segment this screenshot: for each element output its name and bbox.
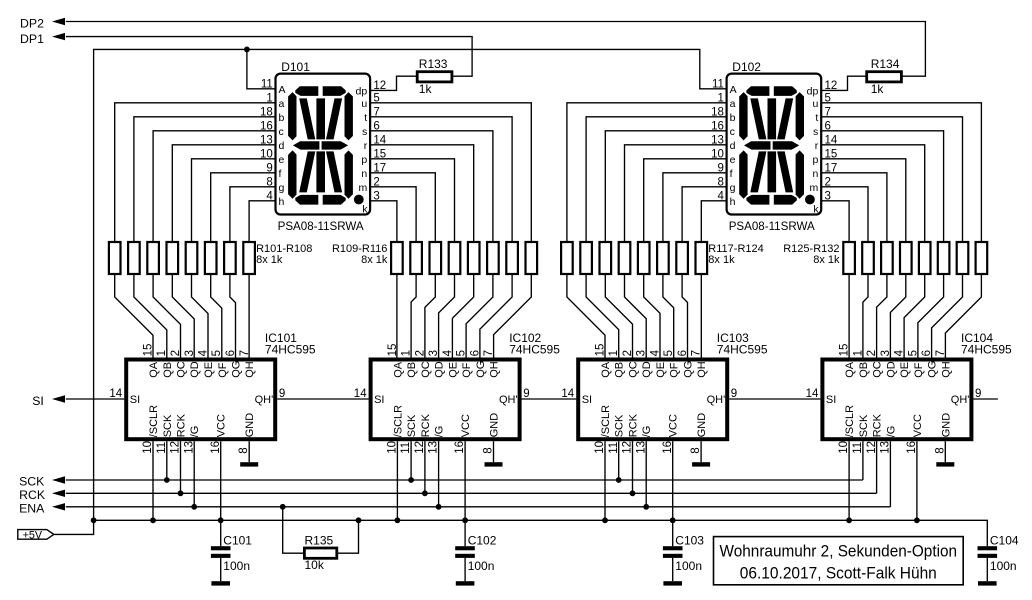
wire IC104 RCK pin (876, 441, 878, 493)
svg-text:5: 5 (456, 350, 468, 356)
wire C102 to ground (464, 558, 466, 581)
svg-text:QG: QG (231, 361, 243, 378)
svg-text:c: c (730, 126, 735, 138)
svg-text:QC: QC (420, 361, 432, 378)
svg-text:2: 2 (866, 350, 878, 356)
svg-text:74HC595: 74HC595 (717, 342, 768, 356)
wire D102 segment r to R129 (821, 145, 925, 242)
svg-text:QE: QE (899, 362, 911, 378)
svg-text:QG: QG (683, 361, 695, 378)
resistor R120 (619, 242, 631, 274)
wire IC104 VCC to +5V rail (916, 441, 918, 520)
node R135 +5V junction (356, 517, 362, 523)
svg-text:10k: 10k (305, 558, 325, 572)
svg-text:QA: QA (844, 361, 856, 378)
svg-text:s: s (362, 126, 367, 138)
capacitor C101 (211, 546, 231, 558)
svg-text:ENA: ENA (19, 502, 45, 516)
wire DP1 to R133 (66, 37, 472, 77)
wire D102 segment b to R118 (586, 117, 727, 242)
svg-text:t: t (815, 112, 818, 124)
svg-text:RCK: RCK (19, 488, 46, 502)
wire R127 to IC104 QC (877, 274, 887, 358)
svg-text:13: 13 (635, 441, 647, 454)
resistor R126 (862, 242, 874, 274)
svg-text:QH': QH' (707, 394, 726, 406)
wire IC104 SCK pin (862, 441, 864, 480)
svg-text:14: 14 (354, 388, 367, 400)
svg-text:8x 1k: 8x 1k (256, 254, 283, 266)
svg-text:n: n (361, 168, 367, 180)
wire D101 segment f to R106 (211, 173, 276, 242)
resistor R103 (147, 242, 159, 274)
svg-text:Wohnraumuhr 2, Sekunden-Option: Wohnraumuhr 2, Sekunden-Option (720, 542, 958, 561)
node IC102 SCK junction (408, 477, 414, 483)
node IC102 /SCLR junction (395, 517, 401, 523)
wire D101 segment a to R101 (115, 103, 276, 242)
svg-text:QC: QC (176, 361, 188, 378)
svg-text:10: 10 (838, 441, 850, 454)
wire D101 segment m to R110 (370, 187, 416, 242)
wire D101 segment u to R116 (370, 103, 531, 242)
svg-text:DP1: DP1 (20, 32, 44, 46)
svg-text:15: 15 (595, 344, 607, 357)
svg-text:t: t (364, 112, 367, 124)
node R135 ENA junction (280, 504, 286, 510)
wire R130 to IC104 QF (918, 274, 944, 358)
net ENA arrow (52, 503, 65, 510)
wire R106 to IC101 QF (211, 274, 222, 358)
resistor R107 (224, 242, 236, 274)
wire D101 segment t to R115 (370, 117, 512, 242)
wire R116 to IC102 QH (494, 274, 532, 358)
wire D101 pin12 to R133 (370, 76, 417, 90)
svg-text:f: f (279, 168, 282, 180)
svg-text:16: 16 (454, 441, 466, 454)
node IC102 VCC junction (462, 517, 468, 523)
IC103 GND stub wire (700, 441, 702, 462)
svg-text:QD: QD (189, 361, 201, 378)
svg-text:7: 7 (239, 350, 251, 356)
net SCK arrow (52, 476, 65, 483)
svg-text:RCK: RCK (872, 413, 884, 437)
svg-text:PSA08-11SRWA: PSA08-11SRWA (278, 219, 364, 233)
wire D101 segment n to R111 (370, 173, 435, 242)
node IC101 /G junction (191, 504, 197, 510)
svg-text:QG: QG (475, 361, 487, 378)
svg-text:1: 1 (852, 350, 864, 356)
resistor R105 (186, 242, 198, 274)
wire R110 to IC102 QB (411, 274, 416, 358)
svg-text:11: 11 (156, 442, 168, 454)
74HC595 IC102 (371, 360, 520, 440)
wire D101 segment g to R107 (230, 187, 276, 242)
svg-text:u: u (812, 98, 818, 110)
wire SCK rail (66, 479, 863, 481)
node IC102 /G junction (436, 504, 442, 510)
svg-text:2: 2 (414, 350, 426, 356)
svg-text:VCC: VCC (912, 414, 924, 437)
wire R105 to IC101 QE (192, 274, 209, 358)
svg-text:QD: QD (885, 361, 897, 378)
resistor R117 (561, 242, 573, 274)
svg-text:u: u (361, 98, 367, 110)
svg-text:100n: 100n (468, 559, 495, 573)
svg-text:b: b (730, 112, 736, 124)
wire R111 to IC102 QC (425, 274, 435, 358)
resistor R127 (881, 242, 893, 274)
svg-text:13: 13 (428, 441, 440, 454)
svg-text:R134: R134 (871, 57, 900, 71)
node IC101 /SCLR junction (150, 517, 156, 523)
svg-text:QD: QD (434, 361, 446, 378)
wire IC101 SCK pin (166, 441, 168, 480)
wire R108 to IC101 QH (248, 274, 250, 358)
svg-text:10: 10 (387, 441, 399, 454)
svg-text:k: k (362, 204, 368, 216)
IC101 GND stub wire (248, 441, 250, 462)
svg-text:m: m (810, 182, 819, 194)
ground symbol IC102 (485, 462, 503, 466)
resistor R121 (638, 242, 650, 274)
svg-text:8x 1k: 8x 1k (708, 254, 735, 266)
ground symbol C103 (663, 581, 682, 585)
capacitor C103 (663, 546, 683, 558)
wire R115 to IC102 QG (480, 274, 512, 358)
resistor R129 (919, 242, 931, 274)
svg-text:16: 16 (906, 441, 918, 454)
svg-text:R135: R135 (305, 534, 334, 548)
74HC595 IC101 (126, 360, 275, 440)
wire IC103 /G pin (645, 441, 647, 507)
svg-text:QF: QF (461, 362, 473, 378)
svg-text:11: 11 (852, 442, 864, 454)
display D101 lit segments (288, 86, 364, 204)
svg-text:8: 8 (483, 447, 495, 453)
node IC103 VCC junction (670, 517, 676, 523)
svg-text:4: 4 (442, 349, 454, 356)
resistor R109 (391, 242, 403, 274)
wire D102 segment n to R127 (821, 173, 887, 242)
svg-text:QE: QE (203, 362, 215, 378)
svg-text:RCK: RCK (176, 413, 188, 437)
svg-text:D102: D102 (732, 60, 761, 74)
resistor R132 (976, 242, 988, 274)
svg-text:h: h (279, 196, 285, 208)
svg-text:11: 11 (608, 442, 620, 454)
ground symbol C102 (456, 581, 475, 585)
ground symbol C104 (978, 581, 997, 585)
resistor R111 (430, 242, 442, 274)
wire IC103 RCK pin (632, 441, 634, 493)
wire R131 to IC104 QG (932, 274, 963, 358)
svg-text:d: d (279, 140, 285, 152)
capacitor C104 (978, 546, 998, 558)
wire C101 to ground (220, 558, 222, 581)
wire branch to D101 pin 11 (247, 49, 276, 88)
wire D102 segment k to R125 (821, 201, 849, 242)
supply +5V flag (18, 530, 54, 540)
resistor R125 (843, 242, 855, 274)
svg-text:PSA08-11SRWA: PSA08-11SRWA (729, 219, 815, 233)
resistor R104 (167, 242, 179, 274)
wire D102 segment t to R131 (821, 117, 962, 242)
wire R102 to IC101 QB (134, 274, 167, 358)
wire R124 to IC103 QH (700, 274, 702, 358)
svg-text:b: b (279, 112, 285, 124)
title box (714, 537, 964, 585)
svg-text:8: 8 (238, 447, 250, 453)
wire R103 to IC101 QC (153, 274, 180, 358)
svg-text:3: 3 (428, 350, 440, 356)
svg-text:SCK: SCK (406, 414, 418, 437)
wire IC102 /SCLR to +5V rail (396, 441, 398, 520)
wire SI to IC101 (66, 398, 124, 400)
wire D101 segment h to R108 (249, 201, 275, 242)
svg-text:QB: QB (858, 362, 870, 378)
wire IC102 QH' to IC103 SI (522, 398, 577, 400)
svg-text:8: 8 (690, 447, 702, 453)
node IC104 VCC junction (914, 517, 920, 523)
svg-text:1: 1 (608, 350, 620, 356)
svg-text:A: A (279, 84, 286, 96)
svg-text:13: 13 (183, 441, 195, 454)
wire RCK rail (66, 492, 877, 494)
wire R122 to IC103 QF (663, 274, 674, 358)
wire D101 segment d to R104 (172, 145, 275, 242)
svg-text:7: 7 (935, 350, 947, 356)
wire D102 segment p to R128 (821, 159, 906, 242)
wire ENA to R135 (283, 507, 305, 553)
svg-text:p: p (812, 154, 818, 166)
wire R132 to IC104 QH (945, 274, 981, 358)
svg-text:/SCLR: /SCLR (148, 405, 160, 437)
svg-text:12: 12 (825, 80, 838, 92)
svg-text:12: 12 (622, 441, 634, 454)
wire IC102 VCC to capacitor (464, 441, 466, 546)
node junction anode branch (244, 47, 250, 53)
svg-text:10: 10 (142, 441, 154, 454)
wire R128 to IC104 QD (890, 274, 905, 358)
svg-text:QD: QD (641, 361, 653, 378)
node +5V rail start (91, 517, 97, 523)
svg-text:QC: QC (872, 361, 884, 378)
svg-text:SCK: SCK (162, 414, 174, 437)
ground symbol IC104 (936, 462, 954, 466)
resistor R133 (417, 72, 452, 82)
node IC103 /SCLR junction (602, 517, 608, 523)
svg-text:4: 4 (894, 349, 906, 356)
svg-text:QH: QH (696, 361, 708, 378)
wire D102 pin12 to R134 (821, 76, 867, 90)
svg-text:a: a (730, 98, 736, 110)
node IC101 VCC junction (218, 517, 224, 523)
svg-text:SI: SI (374, 394, 384, 406)
svg-text:/G: /G (641, 426, 653, 438)
wire D102 segment g to R123 (682, 187, 727, 242)
wire R112 to IC102 QD (439, 274, 455, 358)
wire D101 segment p to R112 (370, 159, 454, 242)
svg-text:2: 2 (170, 350, 182, 356)
node IC103 SCK junction (616, 477, 622, 483)
net SI arrow (52, 395, 65, 402)
node IC101 SCK junction (164, 477, 170, 483)
svg-text:12: 12 (414, 441, 426, 454)
wire IC101 /G pin (193, 441, 195, 507)
svg-text:8x 1k: 8x 1k (813, 254, 840, 266)
svg-text:SI: SI (826, 394, 836, 406)
wire D101 segment s to R114 (370, 131, 493, 242)
resistor R115 (506, 242, 518, 274)
svg-text:14: 14 (109, 388, 122, 400)
resistor R102 (128, 242, 140, 274)
svg-text:c: c (279, 126, 284, 138)
svg-text:1k: 1k (419, 82, 433, 96)
svg-text:100n: 100n (675, 559, 702, 573)
wire +5V anode line to display pins 11 (94, 49, 727, 520)
svg-text:15: 15 (387, 344, 399, 357)
svg-text:VCC: VCC (668, 414, 680, 437)
svg-text:9: 9 (279, 388, 285, 400)
resistor R101 (109, 242, 121, 274)
svg-text:QH': QH' (499, 394, 518, 406)
wire R104 to IC101 QD (172, 274, 194, 358)
resistor R106 (205, 242, 217, 274)
svg-text:/G: /G (434, 426, 446, 438)
wire D102 segment d to R120 (625, 145, 727, 242)
resistor R123 (676, 242, 688, 274)
wire IC103 SCK pin (618, 441, 620, 480)
wire IC101 VCC to capacitor (220, 441, 222, 546)
svg-text:QE: QE (447, 362, 459, 378)
svg-text:QF: QF (217, 362, 229, 378)
wire D102 segment h to R124 (701, 201, 726, 242)
svg-text:6: 6 (225, 350, 237, 356)
svg-text:14: 14 (561, 388, 574, 400)
svg-text:16: 16 (210, 441, 222, 454)
svg-text:C104: C104 (990, 534, 1019, 548)
svg-text:10: 10 (594, 441, 606, 454)
wire D101 segment e to R105 (192, 159, 276, 242)
svg-text:RCK: RCK (628, 413, 640, 437)
wire R113 to IC102 QE (452, 274, 473, 358)
resistor R112 (449, 242, 461, 274)
svg-text:06.10.2017, Scott-Falk Hühn: 06.10.2017, Scott-Falk Hühn (740, 563, 937, 582)
svg-text:GND: GND (489, 413, 501, 438)
svg-text:SI: SI (32, 394, 44, 408)
svg-text:R133: R133 (419, 57, 448, 71)
resistor R134 (867, 72, 902, 82)
wire R129 to IC104 QE (904, 274, 925, 358)
wire IC102 RCK pin (424, 441, 426, 493)
wire R123 to IC103 QG (682, 274, 687, 358)
svg-text:1k: 1k (871, 82, 885, 96)
svg-text:5: 5 (907, 350, 919, 356)
svg-text:100n: 100n (990, 559, 1017, 573)
wire +5V flag to rail (54, 520, 94, 534)
ground symbol IC103 (692, 462, 710, 466)
svg-text:RCK: RCK (420, 413, 432, 437)
svg-text:8: 8 (934, 447, 946, 453)
resistor R130 (938, 242, 950, 274)
svg-text:D101: D101 (281, 60, 310, 74)
svg-text:/G: /G (885, 426, 897, 438)
wire R125 to IC104 QA (848, 274, 850, 358)
svg-text:7: 7 (483, 350, 495, 356)
svg-text:a: a (279, 98, 285, 110)
svg-text:1: 1 (401, 350, 413, 356)
svg-text:14: 14 (806, 388, 819, 400)
svg-text:SI: SI (582, 394, 592, 406)
wire R121 to IC103 QE (644, 274, 660, 358)
svg-text:QE: QE (655, 362, 667, 378)
svg-text:/G: /G (189, 426, 201, 438)
wire R135 to +5V rail (337, 520, 359, 553)
wire IC103 VCC to capacitor (672, 441, 674, 546)
svg-text:8x 1k: 8x 1k (361, 254, 388, 266)
resistor R116 (526, 242, 538, 274)
wire R118 to IC103 QB (586, 274, 619, 358)
wire D102 segment e to R121 (644, 159, 727, 242)
svg-text:QA: QA (148, 361, 160, 378)
svg-text:f: f (730, 168, 733, 180)
svg-text:/SCLR: /SCLR (392, 405, 404, 437)
svg-text:2: 2 (622, 350, 634, 356)
node IC101 RCK junction (178, 490, 184, 496)
svg-text:SCK: SCK (614, 414, 626, 437)
svg-text:GND: GND (696, 413, 708, 438)
display D102 lit segments (739, 86, 815, 204)
svg-text:15: 15 (143, 344, 155, 357)
svg-text:QH: QH (244, 361, 256, 378)
svg-text:3: 3 (636, 350, 648, 356)
svg-text:d: d (730, 140, 736, 152)
node IC102 RCK junction (422, 490, 428, 496)
svg-text:g: g (730, 182, 736, 194)
svg-text:3: 3 (880, 350, 892, 356)
svg-text:3: 3 (184, 350, 196, 356)
node IC104 /SCLR junction (846, 517, 852, 523)
svg-text:GND: GND (244, 413, 256, 438)
svg-text:/SCLR: /SCLR (600, 405, 612, 437)
svg-text:e: e (730, 154, 736, 166)
svg-text:6: 6 (921, 350, 933, 356)
wire +5V rail to C104 (94, 520, 988, 546)
svg-text:QB: QB (162, 362, 174, 378)
svg-text:VCC: VCC (460, 414, 472, 437)
resistor R124 (696, 242, 708, 274)
svg-text:QH': QH' (255, 394, 274, 406)
wire R117 to IC103 QA (567, 274, 605, 358)
resistor R108 (243, 242, 255, 274)
wire DP2 to R134 (66, 22, 926, 77)
IC104 GND stub wire (944, 441, 946, 462)
svg-text:dp: dp (807, 85, 819, 97)
ground symbol C101 (211, 581, 230, 585)
wire IC101 QH' to IC102 SI (277, 398, 368, 400)
svg-text:QF: QF (669, 362, 681, 378)
IC102 GND stub wire (493, 441, 495, 462)
wire R107 to IC101 QG (230, 274, 236, 358)
svg-text:QC: QC (628, 361, 640, 378)
wire IC104 QH' stub (973, 398, 998, 400)
svg-text:QA: QA (600, 361, 612, 378)
wire D102 segment a to R117 (567, 103, 727, 242)
svg-text:QB: QB (406, 362, 418, 378)
svg-text:9: 9 (975, 388, 981, 400)
net DP2 arrow (52, 18, 65, 25)
svg-text:VCC: VCC (216, 414, 228, 437)
